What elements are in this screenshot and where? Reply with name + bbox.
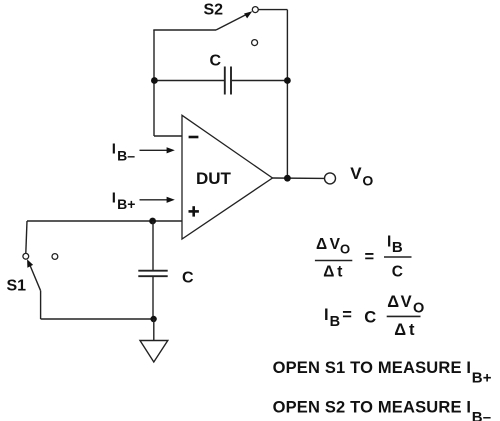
svg-text:=: = bbox=[365, 248, 375, 266]
switch S2 closed contact circle bbox=[252, 7, 258, 13]
wire S1 upper vertical from non-inverting node bbox=[26, 221, 27, 253]
wire S1 lower vertical bbox=[40, 291, 42, 319]
arrow IB+ into non-inverting input bbox=[140, 197, 175, 203]
wire right rail vertical bbox=[286, 10, 288, 178]
switch S2 open contact circle bbox=[252, 40, 258, 46]
switch S2 arm bbox=[216, 11, 252, 30]
wire op-amp output bbox=[273, 177, 325, 179]
svg-text:OPEN S2 TO MEASURE IB–: OPEN S2 TO MEASURE IB– bbox=[273, 398, 492, 421]
junction dot output node bbox=[284, 175, 291, 182]
capacitor C1 right wire bbox=[232, 80, 288, 82]
svg-text:IB=: IB= bbox=[324, 306, 352, 330]
output terminal circle bbox=[325, 173, 336, 184]
svg-text:DUT: DUT bbox=[196, 169, 232, 188]
wire non-inverting input horizontal bbox=[27, 220, 182, 222]
svg-text:ΔVO: ΔVO bbox=[316, 236, 350, 256]
capacitor C2 plates bbox=[138, 271, 167, 277]
svg-text:Δt: Δt bbox=[323, 264, 342, 281]
wire from non-inverting node down to capacitor C2 bbox=[152, 221, 154, 270]
wire inverting-input vertical segment bbox=[153, 30, 155, 136]
wire capacitor C2 to ground node bbox=[152, 277, 154, 319]
op-amp inverting input minus sign bbox=[189, 136, 199, 139]
svg-text:S2: S2 bbox=[204, 2, 224, 19]
svg-text:C: C bbox=[182, 270, 194, 287]
capacitor C1 plates bbox=[225, 67, 231, 95]
switch S1 open contact circle bbox=[52, 254, 58, 260]
op-amp U1 DUT triangle bbox=[182, 115, 273, 239]
svg-text:S1: S1 bbox=[7, 278, 27, 295]
equation 2 fraction bar bbox=[387, 315, 421, 317]
arrow IB- into inverting input bbox=[140, 147, 175, 153]
svg-text:ΔVO: ΔVO bbox=[387, 293, 424, 316]
wire S1 bottom horizontal to ground node bbox=[41, 318, 154, 320]
wire S2 top-left horizontal segment bbox=[153, 29, 216, 31]
equation 1 left fraction bar bbox=[315, 260, 352, 262]
ground symbol bbox=[140, 341, 168, 363]
svg-text:C: C bbox=[392, 264, 403, 281]
svg-text:OPEN S1 TO MEASURE IB+: OPEN S1 TO MEASURE IB+ bbox=[273, 359, 492, 387]
capacitor C1 left wire bbox=[154, 80, 224, 82]
op-amp non-inverting input plus sign bbox=[189, 206, 199, 216]
svg-text:Δt: Δt bbox=[394, 321, 415, 339]
wire inverting-input horizontal segment into op-amp bbox=[154, 135, 182, 137]
junction dot at inverting node and C1 bbox=[151, 77, 158, 84]
junction dot ground node bbox=[150, 316, 156, 322]
svg-text:IB: IB bbox=[387, 234, 403, 256]
equation 1 right fraction bar bbox=[384, 256, 412, 258]
switch S1 arm bbox=[27, 259, 40, 290]
junction dot non-inverting node bbox=[149, 218, 156, 225]
svg-text:C: C bbox=[364, 308, 376, 326]
wire S2 contact to right rail bbox=[258, 9, 287, 11]
svg-text:C: C bbox=[210, 53, 222, 70]
junction dot at right rail and C1 bbox=[284, 77, 291, 84]
svg-text:IB–: IB– bbox=[112, 141, 135, 164]
switch S1 closed contact circle bbox=[23, 253, 29, 259]
wire ground node to ground symbol bbox=[153, 319, 155, 341]
svg-text:IB+: IB+ bbox=[112, 189, 136, 211]
svg-text:VO: VO bbox=[350, 164, 373, 188]
